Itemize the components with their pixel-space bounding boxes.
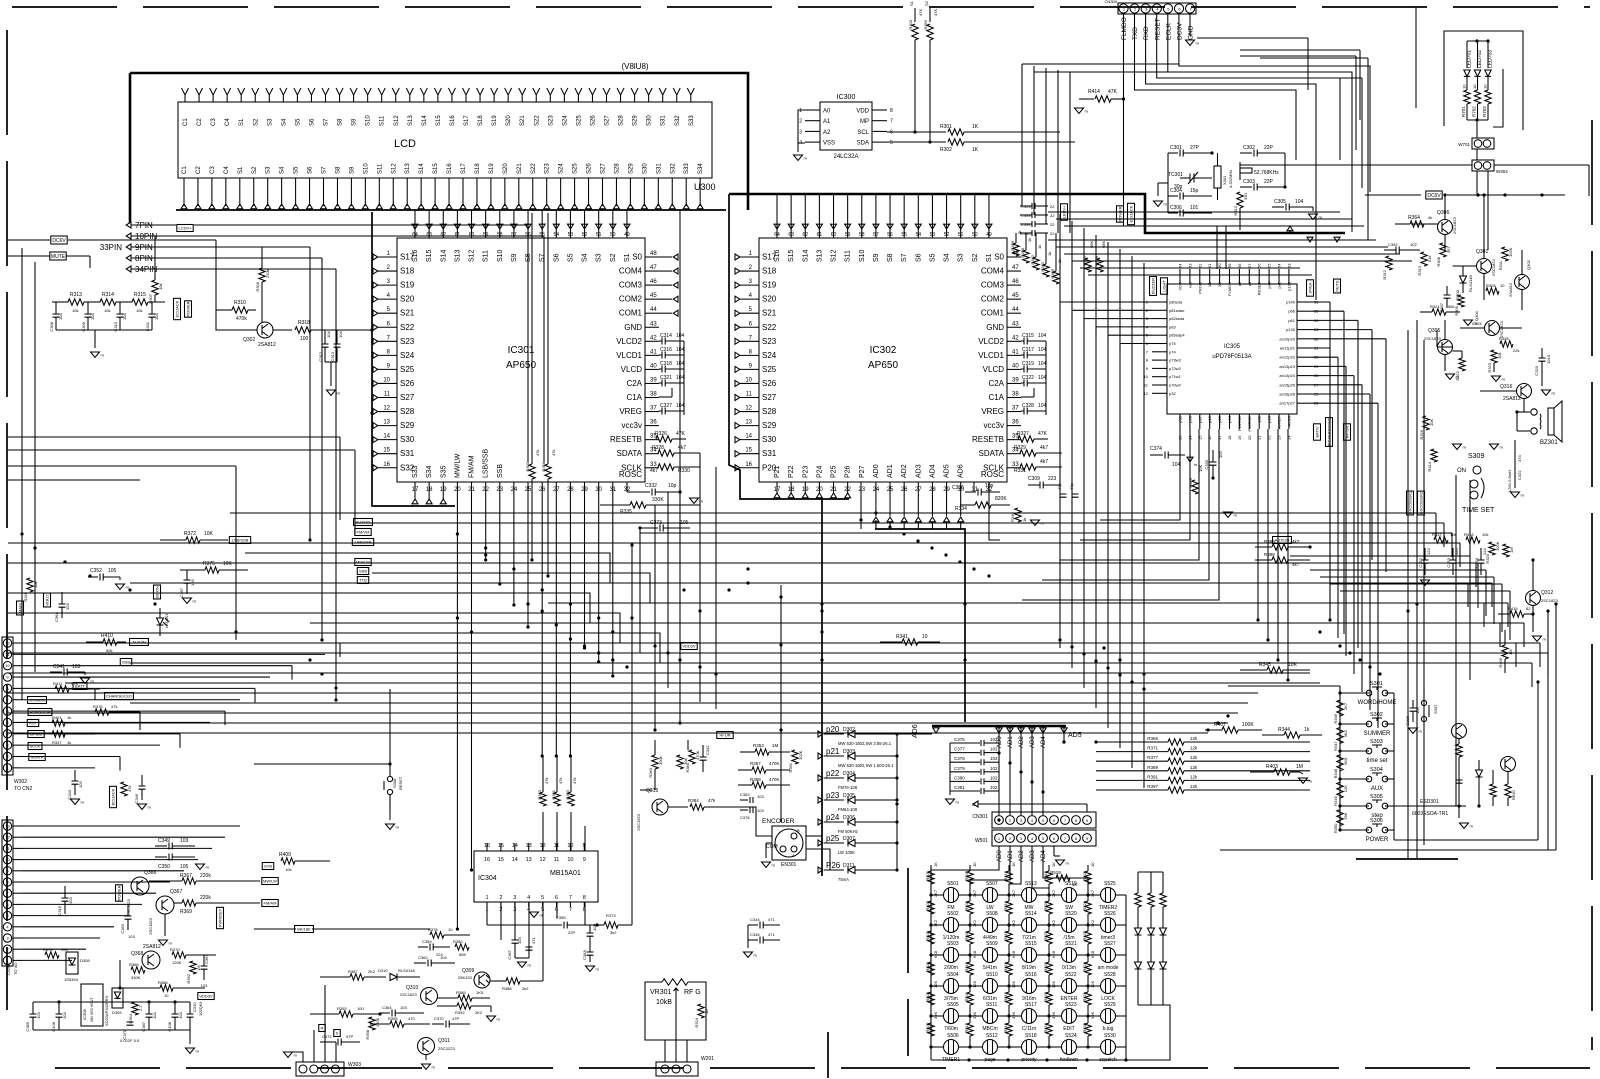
svg-text:S12: S12	[391, 163, 397, 174]
resistors 47k pair	[529, 464, 535, 479]
svg-text:S31: S31	[656, 163, 662, 174]
svg-text:R388: R388	[502, 986, 512, 991]
svg-text:EDIT: EDIT	[1063, 1026, 1074, 1032]
resistor R323 10k	[1491, 350, 1497, 363]
svg-text:AD0: AD0	[997, 736, 1003, 748]
svg-text:102: 102	[990, 747, 998, 752]
wire mesh extra dots	[997, 818, 1000, 821]
capacitor C353 103	[125, 916, 132, 919]
resistor R411 47K	[55, 686, 69, 692]
svg-text:P24: P24	[816, 465, 823, 478]
svg-text:IC305: IC305	[1224, 344, 1241, 350]
svg-text:ENCODER2: ENCODER2	[1419, 491, 1424, 514]
svg-text:1k: 1k	[1047, 252, 1052, 256]
op-amp driver IC302 AP650	[759, 238, 1007, 482]
svg-text:1K5: 1K5	[476, 990, 484, 995]
svg-text:S31: S31	[762, 449, 777, 458]
svg-text:41: 41	[650, 349, 657, 355]
capacitors C366 C36A	[587, 933, 594, 936]
svg-text:R702: R702	[1472, 106, 1477, 117]
svg-text:25K433: 25K433	[458, 975, 473, 980]
svg-text:52: 52	[944, 232, 950, 238]
net labels MW SSB TTB	[355, 559, 371, 566]
svg-text:103: 103	[65, 603, 70, 610]
resistor R389 1K5	[458, 995, 472, 1001]
svg-text:PWR/DET: PWR/DET	[218, 908, 223, 927]
op-amp driver IC301 AP650	[397, 238, 645, 482]
svg-text:R511: R511	[964, 991, 969, 1001]
svg-text:R610: R610	[1511, 790, 1516, 800]
svg-text:S4: S4	[280, 166, 286, 174]
svg-text:R519: R519	[1043, 870, 1048, 880]
transistor Q367 2SC1823	[156, 896, 174, 914]
wire top right horizontals	[1197, 37, 1308, 39]
svg-text:1B: 1B	[704, 1009, 709, 1014]
svg-text:C322: C322	[1517, 470, 1522, 480]
net label LSBSSB1	[229, 537, 250, 544]
svg-text:22: 22	[1267, 435, 1272, 440]
svg-text:330K: 330K	[131, 975, 141, 980]
resistor R362 1M	[190, 961, 196, 974]
capacitor C373 105	[640, 527, 658, 529]
svg-text:12: 12	[745, 406, 752, 412]
svg-text:54: 54	[1277, 263, 1282, 268]
svg-text:HP-UR: HP-UR	[1345, 426, 1350, 439]
svg-text:RST: RST	[29, 721, 38, 726]
svg-text:S26: S26	[590, 115, 596, 126]
svg-text:10k: 10k	[158, 284, 163, 290]
capacitor C302 22P	[1240, 152, 1252, 154]
svg-text:Q301: Q301	[1476, 249, 1488, 255]
svg-text:W201: W201	[701, 1056, 714, 1062]
svg-text:RF G: RF G	[684, 989, 701, 996]
svg-text:103: 103	[128, 934, 135, 939]
capacitors C363 C376	[740, 799, 748, 801]
svg-text:60: 60	[1217, 263, 1222, 268]
svg-text:10K: 10K	[1429, 419, 1434, 426]
svg-text:S23: S23	[548, 115, 554, 126]
svg-text:S20: S20	[506, 115, 512, 126]
svg-text:C36A: C36A	[582, 950, 587, 960]
svg-text:S21: S21	[400, 309, 415, 318]
transistor Q310 2SC1623	[421, 988, 438, 1005]
svg-text:LSB/SSB: LSB/SSB	[483, 448, 490, 478]
svg-text:TC301: TC301	[1168, 172, 1183, 178]
svg-text:C352: C352	[1418, 557, 1423, 567]
svg-text:p71w1: p71w1	[1169, 374, 1182, 379]
transistor Q309 25K433	[474, 972, 490, 988]
svg-text:FM76-108: FM76-108	[838, 785, 858, 790]
svg-text:13: 13	[383, 420, 390, 426]
svg-text:C352: C352	[1388, 242, 1398, 247]
transistor Q311 2SC2223	[418, 1038, 435, 1055]
svg-text:C317: C317	[1022, 347, 1034, 353]
svg-text:C346: C346	[134, 793, 139, 803]
svg-text:47k: 47k	[551, 450, 556, 456]
svg-text:S5: S5	[294, 166, 300, 174]
svg-text:S22: S22	[762, 323, 777, 332]
resistor R306 220k	[259, 268, 265, 282]
svg-text:S33: S33	[689, 115, 695, 126]
svg-text:AUX: AUX	[1371, 786, 1383, 792]
svg-text:3: 3	[799, 129, 802, 135]
svg-text:S511: S511	[986, 1002, 998, 1008]
svg-text:p85adp4: p85adp4	[1169, 333, 1185, 338]
svg-text:S28: S28	[619, 115, 625, 126]
svg-text:10: 10	[1462, 84, 1467, 89]
svg-text:S22: S22	[531, 163, 537, 174]
svg-text:12K: 12K	[1343, 785, 1348, 792]
svg-text:1M: 1M	[772, 743, 779, 748]
svg-text:1K: 1K	[1072, 882, 1078, 887]
wire led join	[1467, 119, 1488, 121]
svg-text:R504: R504	[925, 961, 930, 971]
svg-text:3K2: 3K2	[972, 919, 977, 927]
svg-text:S512: S512	[986, 1033, 998, 1039]
connector CN301	[992, 812, 1096, 828]
svg-text:S508: S508	[986, 911, 998, 917]
svg-text:S24: S24	[762, 351, 777, 360]
svg-text:1k: 1k	[1304, 727, 1310, 733]
svg-text:C353: C353	[1446, 557, 1451, 567]
resistor R388 2k2	[506, 978, 520, 984]
wire right cluster links	[1411, 223, 1438, 225]
capacitor C344 471	[748, 924, 758, 926]
svg-text:R502: R502	[925, 900, 930, 910]
svg-text:Q316: Q316	[1500, 384, 1512, 390]
wire IC305 right verticals	[1312, 301, 1330, 303]
svg-text:AD1: AD1	[1008, 736, 1014, 748]
svg-text:BUZZER: BUZZER	[1151, 278, 1156, 294]
svg-text:10K: 10K	[223, 561, 233, 567]
net label ECJACK3	[1128, 203, 1135, 224]
svg-text:61: 61	[817, 232, 823, 238]
svg-text:59: 59	[483, 232, 489, 238]
svg-text:58: 58	[1237, 263, 1242, 268]
capacitors C314 C316 C318 C321 C327	[659, 340, 662, 342]
boxed R S	[319, 1025, 325, 1032]
resistor R369 220k	[182, 900, 196, 906]
svg-text:49: 49	[624, 232, 630, 238]
svg-text:12: 12	[5, 835, 10, 840]
svg-text:VREG: VREG	[619, 407, 642, 416]
svg-text:p23: p23	[826, 791, 840, 800]
svg-text:S16: S16	[447, 163, 453, 174]
svg-text:1K: 1K	[972, 124, 979, 130]
svg-text:45: 45	[650, 293, 657, 299]
svg-text:15: 15	[498, 857, 504, 863]
svg-text:474: 474	[1517, 455, 1522, 462]
svg-text:R329: R329	[1014, 445, 1026, 451]
svg-text:VDD: VDD	[856, 109, 869, 115]
svg-text:S25: S25	[762, 365, 777, 374]
resistor R320 102K	[1489, 542, 1495, 555]
svg-text:R520: R520	[1043, 900, 1048, 910]
svg-text:LCD: LCD	[394, 138, 416, 150]
resistor R344 1k	[1284, 732, 1300, 738]
svg-text:2: 2	[799, 119, 802, 125]
net label LIGHT	[1161, 278, 1168, 294]
wire junction dots	[370, 328, 373, 331]
svg-text:3K2: 3K2	[1051, 919, 1056, 927]
svg-text:S31: S31	[400, 449, 415, 458]
svg-text:104: 104	[178, 1012, 183, 1019]
svg-text:am mode: am mode	[1098, 965, 1119, 971]
resistor R330 4k7	[658, 464, 674, 470]
svg-text:C316: C316	[57, 905, 62, 915]
svg-text:10: 10	[567, 857, 573, 863]
svg-text:S13: S13	[405, 163, 411, 174]
svg-text:16: 16	[745, 462, 752, 468]
svg-text:470K: 470K	[769, 777, 780, 782]
svg-text:C380: C380	[954, 775, 965, 780]
svg-text:TO W2: TO W2	[13, 962, 18, 975]
svg-text:12: 12	[5, 641, 10, 646]
svg-text:S5: S5	[295, 118, 301, 126]
svg-text:7/60m: 7/60m	[944, 1026, 958, 1032]
svg-text:CN301: CN301	[972, 814, 988, 820]
svg-text:b.lug: b.lug	[1103, 1026, 1114, 1032]
svg-text:S524: S524	[1065, 1033, 1077, 1039]
svg-text:4k7: 4k7	[1040, 445, 1048, 451]
svg-text:100k: 100k	[658, 756, 663, 765]
svg-text:39: 39	[650, 377, 657, 383]
svg-text:C3: C3	[211, 118, 217, 126]
svg-text:BC/JACK: BC/JACK	[111, 788, 116, 805]
svg-text:S507: S507	[986, 881, 998, 887]
resistor R413 330	[1237, 192, 1243, 208]
wire heavy AD bus	[875, 529, 965, 722]
svg-text:S528: S528	[1104, 972, 1116, 978]
svg-text:S503: S503	[947, 941, 959, 947]
net label HPUR	[1344, 424, 1351, 440]
diode D309	[112, 988, 123, 1008]
svg-text:S14: S14	[422, 115, 428, 126]
svg-text:3K3: 3K3	[1343, 730, 1348, 738]
svg-text:C363: C363	[740, 792, 750, 797]
svg-text:D300: D300	[1455, 289, 1460, 299]
svg-text:S28: S28	[614, 163, 620, 174]
svg-text:10: 10	[5, 857, 10, 862]
svg-text:S6: S6	[553, 253, 560, 262]
svg-text:103: 103	[757, 794, 764, 799]
svg-text:820K: 820K	[995, 496, 1007, 502]
capacitor C304b	[1464, 320, 1473, 325]
svg-text:S19: S19	[489, 163, 495, 174]
svg-text:S21: S21	[520, 115, 526, 126]
svg-text:MUTE: MUTE	[51, 254, 66, 260]
svg-text:S35: S35	[440, 465, 447, 478]
svg-text:56K: 56K	[459, 952, 466, 957]
svg-text:C306: C306	[1170, 205, 1182, 211]
transistor Q302 2SA812	[257, 322, 273, 338]
svg-text:S506: S506	[947, 1033, 959, 1039]
resistor R358b 470K	[752, 782, 766, 788]
svg-text:S25: S25	[400, 365, 415, 374]
svg-text:54: 54	[916, 232, 922, 238]
svg-text:R510: R510	[964, 961, 969, 971]
wire heavy IC302 left feed	[729, 194, 849, 499]
net label SDATAl	[29, 754, 45, 761]
svg-text:R328: R328	[1499, 336, 1509, 341]
svg-text:AVSS: AVSS	[1286, 416, 1291, 427]
svg-text:S2: S2	[252, 166, 258, 174]
svg-text:C316: C316	[660, 347, 672, 353]
svg-text:R327: R327	[1017, 431, 1029, 437]
svg-text:LED701: LED701	[1467, 50, 1473, 68]
capacitors C375-C381	[950, 742, 980, 744]
svg-text:S25: S25	[573, 163, 579, 174]
svg-text:R389: R389	[1147, 765, 1158, 770]
svg-text:D311: D311	[843, 863, 855, 869]
svg-text:102: 102	[990, 766, 998, 771]
net label ST/MON	[28, 697, 47, 704]
svg-text:WORD/HOME: WORD/HOME	[1358, 700, 1397, 706]
svg-text:63: 63	[426, 232, 432, 238]
svg-text:R325: R325	[1419, 429, 1424, 439]
svg-text:R313: R313	[70, 292, 82, 298]
svg-text:p25: p25	[826, 834, 840, 843]
svg-text:Q310: Q310	[406, 985, 418, 991]
capacitor C346 103	[139, 786, 146, 789]
svg-text:R363: R363	[565, 789, 570, 799]
svg-text:VLCD2: VLCD2	[616, 337, 642, 346]
svg-text:P21: P21	[774, 465, 781, 478]
svg-text:CN302: CN302	[6, 962, 11, 975]
svg-text:104: 104	[152, 1012, 157, 1019]
svg-text:82: 82	[1526, 606, 1531, 611]
svg-text:S7: S7	[324, 118, 330, 126]
svg-text:12K: 12K	[933, 981, 938, 988]
svg-text:C1: C1	[182, 166, 188, 174]
svg-text:R401: R401	[52, 715, 62, 720]
net label SSB2	[120, 659, 131, 666]
svg-text:S14: S14	[802, 249, 809, 262]
svg-text:AD4: AD4	[929, 464, 936, 478]
svg-text:S304: S304	[1370, 767, 1383, 773]
connector CN300	[1118, 3, 1196, 14]
svg-text:S10: S10	[859, 249, 866, 262]
svg-text:C385: C385	[25, 1021, 30, 1031]
svg-text:p21: p21	[826, 747, 840, 756]
svg-text:R507: R507	[964, 870, 969, 880]
svg-text:4k: 4k	[1428, 215, 1432, 220]
svg-text:R389: R389	[456, 990, 466, 995]
connector W304	[1472, 160, 1494, 171]
svg-text:S16: S16	[774, 249, 781, 262]
svg-text:p10: p10	[1267, 415, 1272, 422]
svg-text:1: 1	[485, 895, 488, 901]
svg-text:57: 57	[511, 232, 517, 238]
svg-text:p72w2: p72w2	[1169, 366, 1182, 371]
svg-text:S7: S7	[322, 166, 328, 174]
svg-text:2.2: 2.2	[138, 1005, 143, 1011]
svg-text:S15: S15	[436, 115, 442, 126]
connector W501	[992, 830, 1096, 846]
svg-text:DC3V: DC3V	[1177, 22, 1184, 40]
capacitors C352-C354	[1422, 560, 1429, 563]
svg-text:39K: 39K	[933, 1012, 938, 1019]
svg-text:104: 104	[1172, 462, 1181, 468]
resistor R313 51k	[1421, 252, 1427, 266]
svg-text:2k2: 2k2	[522, 986, 529, 991]
svg-text:P22: P22	[788, 465, 795, 478]
svg-text:SUMMER: SUMMER	[1364, 731, 1391, 737]
svg-text:S24: S24	[559, 163, 565, 174]
resistor R414 47K	[1075, 108, 1084, 113]
svg-text:COM2: COM2	[981, 295, 1005, 304]
svg-text:12: 12	[540, 857, 546, 863]
svg-text:TIME SET: TIME SET	[1462, 507, 1495, 514]
svg-text:BATT: BATT	[75, 684, 85, 689]
resistor R312	[1386, 256, 1392, 270]
svg-text:C308: C308	[49, 321, 54, 331]
net label BK18K	[295, 926, 314, 933]
svg-text:24: 24	[1286, 435, 1291, 440]
svg-text:W501: W501	[975, 838, 988, 844]
wire matrix bottom bus	[931, 1059, 1126, 1061]
svg-text:22: 22	[1050, 222, 1055, 227]
svg-text:BZ301: BZ301	[1540, 440, 1558, 446]
svg-text:R373: R373	[606, 913, 616, 918]
page dashed border	[12, 6, 1590, 8]
svg-text:22P: 22P	[568, 930, 575, 935]
svg-text:C362: C362	[418, 955, 428, 960]
svg-text:2K7: 2K7	[933, 889, 938, 897]
svg-text:D309: D309	[112, 1010, 122, 1015]
switch S307	[1421, 700, 1426, 705]
capacitor C306 101	[1168, 212, 1178, 214]
svg-text:R413: R413	[1233, 205, 1238, 215]
svg-text:471: 471	[768, 917, 775, 922]
transistor Q306 2SC1823	[1438, 220, 1453, 235]
svg-text:an15p25: an15p25	[1279, 382, 1295, 387]
svg-text:R348: R348	[1333, 768, 1338, 778]
svg-text:7: 7	[569, 907, 572, 913]
connector W701	[1472, 138, 1494, 149]
connector W303	[296, 1062, 344, 1076]
wire CN300 RXD	[1146, 14, 1316, 300]
svg-text:57: 57	[873, 232, 879, 238]
svg-text:C377: C377	[954, 747, 965, 752]
led LED301	[157, 618, 164, 625]
resistor R302 1K	[887, 141, 946, 143]
svg-text:64: 64	[412, 232, 418, 238]
ground regulator row	[33, 1029, 190, 1031]
svg-text:5: 5	[890, 140, 893, 146]
svg-text:2/90m: 2/90m	[944, 965, 958, 971]
resistor R353 1M	[755, 749, 769, 755]
svg-text:R310: R310	[234, 300, 246, 306]
svg-text:1k: 1k	[1027, 238, 1032, 242]
ground IC305 bottom	[1224, 512, 1233, 517]
svg-text:7: 7	[890, 119, 893, 125]
svg-text:VDD3V: VDD3V	[199, 994, 213, 999]
svg-text:R369: R369	[180, 909, 192, 915]
net label DC6V right	[1426, 191, 1442, 199]
svg-text:10: 10	[745, 377, 752, 383]
resistor R321 56k	[1432, 309, 1446, 315]
svg-text:C304: C304	[1170, 188, 1182, 194]
svg-text:R375: R375	[203, 561, 215, 567]
svg-text:R512: R512	[964, 1022, 969, 1032]
resistor R403 1M	[1274, 769, 1290, 775]
net label POWER3	[1117, 206, 1124, 222]
svg-text:16: 16	[1207, 435, 1212, 440]
svg-text:AD1: AD1	[1008, 850, 1014, 862]
svg-text:22: 22	[1050, 213, 1055, 218]
svg-text:EC/JACK: EC/JACK	[1129, 205, 1134, 222]
